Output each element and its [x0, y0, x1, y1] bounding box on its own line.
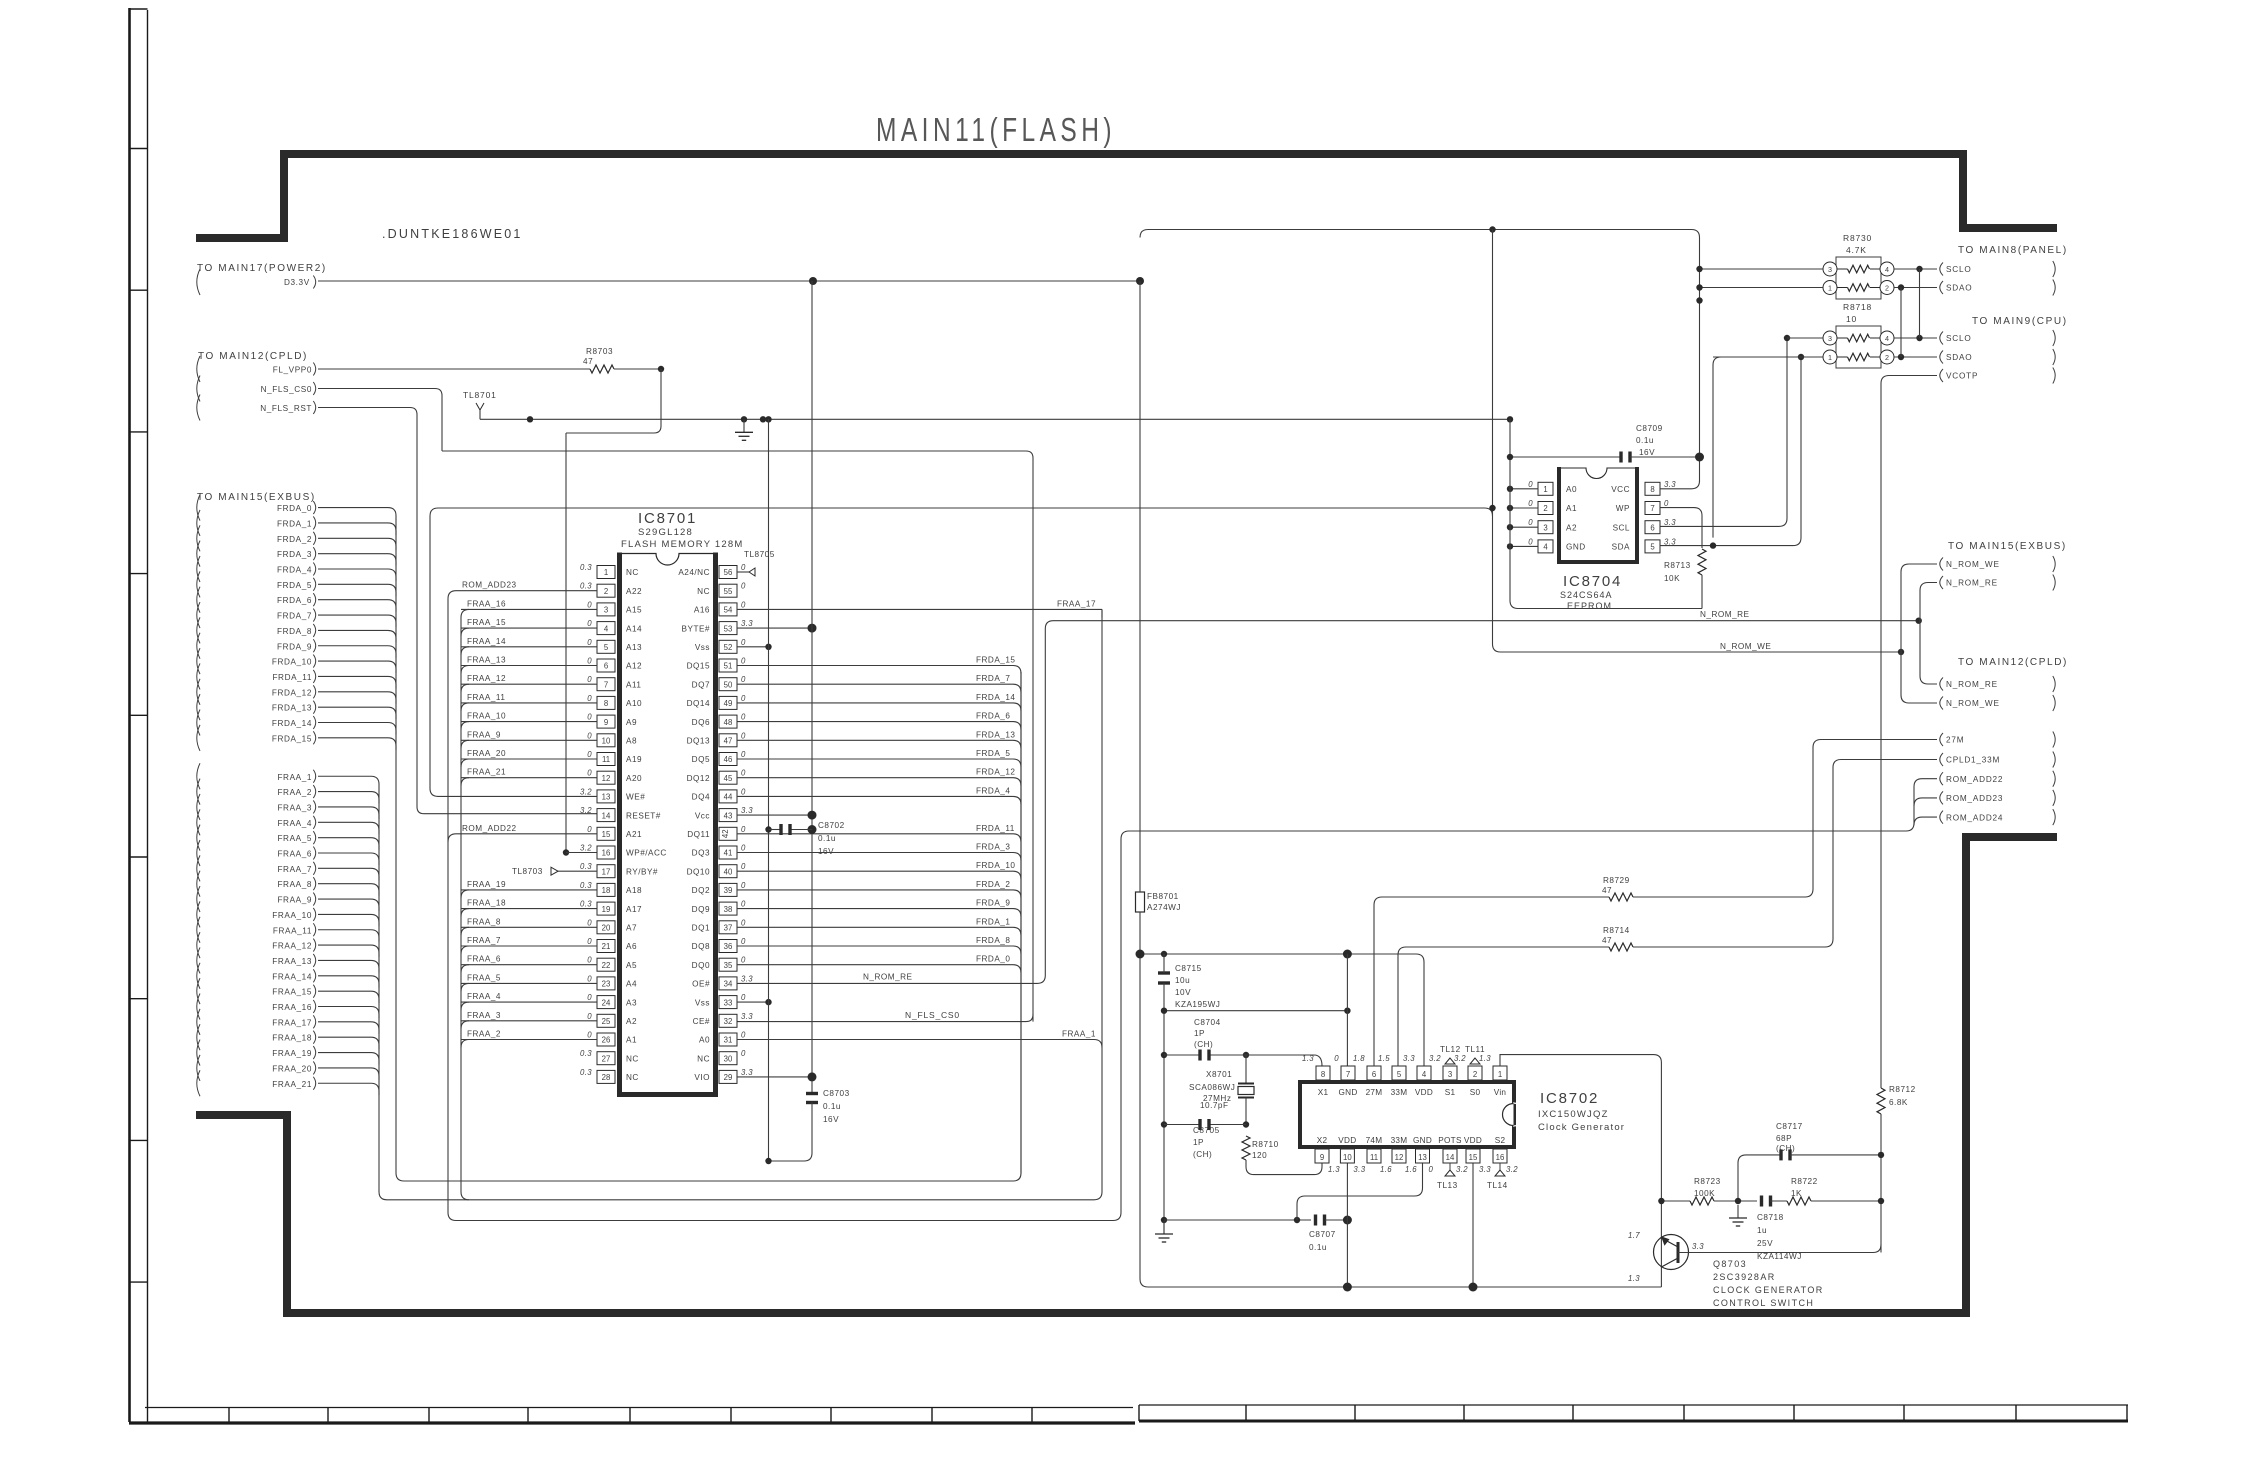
svg-text:A274WJ: A274WJ	[1147, 903, 1181, 912]
node FRAA_19 stub and wire	[197, 1040, 200, 1066]
svg-text:3: 3	[1828, 265, 1832, 274]
svg-text:28: 28	[602, 1073, 611, 1082]
svg-text:CE#: CE#	[693, 1017, 710, 1026]
svg-text:DQ4: DQ4	[692, 793, 710, 802]
svg-text:0: 0	[587, 956, 592, 965]
svg-text:GND: GND	[1566, 543, 1586, 552]
node SDAO stub	[1940, 281, 1943, 294]
svg-text:FRAA_20: FRAA_20	[272, 1064, 312, 1073]
svg-text:SDAO: SDAO	[1946, 353, 1972, 362]
svg-text:48: 48	[724, 718, 733, 727]
svg-text:0: 0	[1334, 1054, 1339, 1063]
svg-text:Vss: Vss	[695, 998, 710, 1007]
wire WE# N_ROM_WE net	[430, 508, 1901, 796]
svg-text:120: 120	[1252, 1151, 1267, 1160]
node ROM_ADD24 stub	[1940, 811, 1943, 824]
svg-text:0: 0	[741, 657, 746, 666]
pin 10 A8	[597, 734, 615, 747]
pin 29 VIO	[719, 1070, 737, 1083]
svg-text:1.6: 1.6	[1380, 1165, 1392, 1174]
svg-text:0: 0	[1528, 480, 1533, 489]
svg-text:3: 3	[1828, 334, 1832, 343]
svg-text:R8730: R8730	[1843, 233, 1872, 243]
svg-text:N_ROM_RE: N_ROM_RE	[1700, 610, 1750, 619]
svg-text:C8718: C8718	[1757, 1213, 1784, 1222]
svg-text:0: 0	[587, 713, 592, 722]
svg-text:14: 14	[602, 811, 611, 820]
svg-text:4.7K: 4.7K	[1846, 245, 1867, 255]
svg-text:25: 25	[602, 1017, 611, 1026]
svg-text:43: 43	[724, 811, 733, 820]
node FRAA_2 stub and wire	[197, 779, 200, 805]
svg-text:C8704: C8704	[1194, 1018, 1221, 1027]
svg-text:A21: A21	[626, 830, 642, 839]
svg-text:3.2: 3.2	[1456, 1165, 1468, 1174]
Vin feed	[1500, 1055, 1661, 1287]
svg-text:3.3: 3.3	[1692, 1242, 1704, 1251]
svg-text:N_FLS_RST: N_FLS_RST	[260, 404, 312, 413]
svg-text:TO MAIN8(PANEL): TO MAIN8(PANEL)	[1958, 245, 2068, 256]
pin 52 Vss	[719, 640, 737, 653]
svg-text:FRAA_10: FRAA_10	[467, 712, 506, 721]
svg-text:R8729: R8729	[1603, 876, 1630, 885]
svg-text:A8: A8	[626, 737, 637, 746]
svg-text:0: 0	[741, 731, 746, 740]
svg-text:10: 10	[602, 737, 611, 746]
node FRDA_3 stub and wire	[197, 541, 200, 567]
svg-text:51: 51	[724, 662, 733, 671]
capacitor C8718 1u 25V	[1760, 1196, 1763, 1207]
capacitor C8703 0.1u 16V	[806, 1092, 818, 1095]
svg-text:FRAA_12: FRAA_12	[272, 942, 312, 951]
IC8702 pin 7 GND	[1341, 1066, 1355, 1080]
svg-text:0.3: 0.3	[580, 881, 592, 890]
svg-text:DQ7: DQ7	[692, 680, 710, 689]
svg-text:2: 2	[1885, 283, 1889, 292]
svg-text:FRDA_10: FRDA_10	[976, 861, 1015, 870]
svg-text:FRDA_15: FRDA_15	[976, 656, 1015, 665]
svg-text:FRAA_4: FRAA_4	[467, 992, 501, 1001]
svg-text:S29GL128: S29GL128	[638, 527, 693, 538]
svg-text:BYTE#: BYTE#	[682, 624, 710, 633]
svg-text:0.3: 0.3	[580, 862, 592, 871]
svg-text:45: 45	[724, 774, 733, 783]
wire BYTE# to 3.3V rail	[737, 627, 812, 629]
svg-text:3.3: 3.3	[1664, 480, 1676, 489]
svg-text:0: 0	[741, 993, 746, 1002]
svg-text:FRAA_13: FRAA_13	[467, 656, 506, 665]
pin 51 DQ15	[719, 659, 737, 672]
pin 37 DQ1	[719, 921, 737, 934]
svg-text:POTS: POTS	[1438, 1136, 1462, 1145]
svg-text:0: 0	[587, 657, 592, 666]
27M vertical to pin6	[1374, 897, 1609, 1066]
IC8702 clock generator body	[1298, 1080, 1516, 1084]
svg-text:16V: 16V	[1639, 448, 1655, 457]
svg-text:TO MAIN12(CPLD): TO MAIN12(CPLD)	[1958, 657, 2068, 668]
svg-text:FB8701: FB8701	[1147, 892, 1179, 901]
svg-text:0.1u: 0.1u	[818, 834, 836, 843]
svg-text:0: 0	[1528, 499, 1533, 508]
svg-text:DQ6: DQ6	[692, 718, 710, 727]
svg-text:13: 13	[602, 793, 611, 802]
svg-text:Vss: Vss	[695, 643, 710, 652]
svg-text:0.1u: 0.1u	[823, 1102, 841, 1111]
pin 43 Vcc	[719, 809, 737, 822]
node FRAA_1 stub and wire	[197, 763, 200, 789]
svg-text:2: 2	[1543, 504, 1547, 513]
EEPROM left ground bus	[1507, 416, 1513, 422]
svg-text:FRAA_8: FRAA_8	[467, 917, 501, 926]
node 27M stub	[1940, 733, 1943, 746]
svg-text:FL_VPP0: FL_VPP0	[273, 366, 312, 375]
svg-text:A10: A10	[626, 699, 642, 708]
svg-text:N_ROM_WE: N_ROM_WE	[1946, 699, 2000, 708]
pin 30 NC	[719, 1052, 737, 1065]
svg-text:20: 20	[602, 924, 611, 933]
svg-text:8: 8	[1650, 485, 1654, 494]
svg-text:Clock Generator: Clock Generator	[1538, 1122, 1625, 1133]
svg-text:S0: S0	[1470, 1088, 1481, 1097]
N_ROM_WE stub riser	[1901, 564, 1937, 703]
svg-text:0: 0	[587, 769, 592, 778]
svg-text:RY/BY#: RY/BY#	[626, 867, 658, 876]
svg-text:0: 0	[1528, 537, 1533, 546]
svg-text:3: 3	[1448, 1070, 1452, 1079]
pin 5 A13	[597, 640, 615, 653]
svg-text:R8714: R8714	[1603, 926, 1630, 935]
svg-text:A24/NC: A24/NC	[678, 568, 710, 577]
svg-text:FRAA_14: FRAA_14	[272, 972, 312, 981]
3.3V top rail	[1140, 230, 1700, 483]
svg-text:RESET#: RESET#	[626, 811, 661, 820]
svg-text:FRAA_11: FRAA_11	[467, 693, 505, 702]
ground under C8715 branch	[1161, 1217, 1167, 1223]
pin 49 DQ14	[719, 696, 737, 709]
svg-text:N_ROM_WE: N_ROM_WE	[1946, 560, 2000, 569]
IC8704 EEPROM body	[1557, 467, 1561, 564]
3.3V drop vertical	[1139, 281, 1141, 892]
svg-text:SDAO: SDAO	[1946, 284, 1972, 293]
pin 6 A12	[597, 659, 615, 672]
wire SCL pin6	[1660, 338, 1787, 526]
svg-text:FRDA_15: FRDA_15	[272, 734, 312, 743]
svg-text:0: 0	[741, 825, 746, 834]
eeprom pin 6 SCL	[1645, 521, 1660, 534]
svg-text:WP#/ACC: WP#/ACC	[626, 849, 667, 858]
svg-text:N_ROM_RE: N_ROM_RE	[863, 972, 913, 981]
pin 8 A10	[597, 696, 615, 709]
svg-text:A18: A18	[626, 886, 642, 895]
FRDA label bus vertical	[1020, 672, 1022, 1173]
svg-text:CPLD1_33M: CPLD1_33M	[1946, 756, 2000, 765]
capacitor C8707 0.1u	[1314, 1215, 1317, 1226]
wire FL_VPP0 to WP#/ACC pin16	[566, 369, 661, 433]
svg-text:FRDA_9: FRDA_9	[976, 899, 1010, 908]
svg-text:FRDA_10: FRDA_10	[272, 658, 312, 667]
svg-text:3.2: 3.2	[580, 806, 592, 815]
svg-text:55: 55	[724, 587, 733, 596]
svg-text:1u: 1u	[1757, 1226, 1767, 1235]
svg-text:15: 15	[1469, 1153, 1478, 1162]
svg-text:ROM_ADD23: ROM_ADD23	[462, 581, 517, 590]
svg-text:0: 0	[741, 937, 746, 946]
pin 40 DQ10	[719, 865, 737, 878]
svg-text:5: 5	[1397, 1070, 1402, 1079]
svg-text:3.2: 3.2	[1429, 1054, 1441, 1063]
svg-text:13: 13	[1418, 1153, 1427, 1162]
svg-text:12: 12	[602, 774, 611, 783]
svg-text:FRAA_9: FRAA_9	[467, 730, 501, 739]
pin15 VDD drop	[1472, 1163, 1474, 1287]
svg-text:A20: A20	[626, 774, 642, 783]
wire Vcc pin43	[737, 814, 812, 816]
svg-text:0: 0	[741, 1031, 746, 1040]
svg-text:A0: A0	[1566, 485, 1577, 494]
node FRDA_1 stub and wire	[197, 510, 200, 536]
svg-text:A13: A13	[626, 643, 642, 652]
svg-text:0: 0	[1528, 518, 1533, 527]
svg-text:1: 1	[604, 568, 608, 577]
svg-text:FRAA_17: FRAA_17	[272, 1018, 312, 1027]
svg-text:0: 0	[587, 918, 592, 927]
svg-text:0: 0	[741, 862, 746, 871]
svg-text:FRDA_11: FRDA_11	[976, 824, 1015, 833]
svg-text:A11: A11	[626, 680, 641, 689]
node FRAA_6 stub and wire	[197, 840, 200, 866]
svg-text:34: 34	[724, 980, 733, 989]
svg-text:56: 56	[724, 568, 733, 577]
svg-text:SCL: SCL	[1613, 523, 1630, 532]
node FRAA_5 stub and wire	[197, 825, 200, 851]
IC8702 pin 4 VDD	[1417, 1066, 1431, 1080]
IC8702 pin 9 X2	[1315, 1149, 1329, 1163]
svg-text:TL11: TL11	[1465, 1045, 1485, 1054]
svg-text:33M: 33M	[1391, 1088, 1408, 1097]
FRAA label bus vertical	[461, 609, 469, 1199]
svg-text:IC8704: IC8704	[1563, 573, 1622, 590]
svg-text:10: 10	[1846, 314, 1857, 324]
node FRDA_9 stub and wire	[197, 633, 200, 659]
node FRDA_4 stub and wire	[197, 556, 200, 582]
node FRAA_8 stub and wire	[197, 871, 200, 897]
svg-text:DQ2: DQ2	[692, 886, 710, 895]
svg-text:0: 0	[587, 600, 592, 609]
svg-text:FRDA_7: FRDA_7	[277, 612, 312, 621]
svg-text:0: 0	[741, 713, 746, 722]
svg-text:0: 0	[587, 937, 592, 946]
svg-text:ROM_ADD23: ROM_ADD23	[1946, 794, 2003, 803]
svg-text:3: 3	[1543, 523, 1547, 532]
svg-text:27: 27	[602, 1054, 611, 1063]
svg-text:TO MAIN17(POWER2): TO MAIN17(POWER2)	[197, 263, 327, 274]
svg-text:15: 15	[602, 830, 611, 839]
svg-text:50: 50	[724, 680, 733, 689]
svg-text:EEPROM: EEPROM	[1567, 601, 1612, 611]
svg-text:5: 5	[604, 643, 609, 652]
pin 21 A6	[597, 940, 615, 953]
svg-text:A2: A2	[626, 1017, 637, 1026]
pin 3 A15	[597, 603, 615, 616]
svg-text:0: 0	[741, 1049, 746, 1058]
pin 48 DQ6	[719, 715, 737, 728]
svg-text:A12: A12	[626, 662, 642, 671]
svg-text:16V: 16V	[818, 847, 834, 856]
svg-text:0: 0	[587, 675, 592, 684]
svg-text:DQ9: DQ9	[692, 905, 710, 914]
svg-text:9: 9	[1320, 1153, 1324, 1162]
svg-text:SCLO: SCLO	[1946, 265, 1972, 274]
svg-text:FRDA_12: FRDA_12	[976, 768, 1015, 777]
svg-text:0: 0	[741, 638, 746, 647]
svg-text:NC: NC	[626, 1073, 639, 1082]
pin 34 OE#	[719, 977, 737, 990]
IC8702 pin 16 S2	[1493, 1149, 1507, 1163]
svg-text:A2: A2	[1566, 523, 1577, 532]
svg-text:FRDA_14: FRDA_14	[272, 719, 312, 728]
svg-text:16V: 16V	[823, 1115, 839, 1124]
svg-text:0: 0	[741, 787, 746, 796]
3.3V bottom rail	[1140, 1279, 1661, 1287]
svg-text:DQ8: DQ8	[692, 942, 710, 951]
IC8702 pin 8 X1	[1316, 1066, 1330, 1080]
svg-text:C8702: C8702	[818, 821, 845, 830]
svg-text:0: 0	[1664, 499, 1669, 508]
capacitor C8715 10u 10V	[1158, 971, 1170, 974]
svg-text:FRAA_18: FRAA_18	[467, 899, 506, 908]
svg-text:36: 36	[724, 942, 733, 951]
svg-text:GND: GND	[1338, 1088, 1357, 1097]
svg-text:FRAA_14: FRAA_14	[467, 637, 506, 646]
svg-text:33: 33	[724, 998, 733, 1007]
svg-text:4: 4	[1422, 1070, 1427, 1079]
ROM_ADD bus vertical	[448, 591, 1113, 1221]
svg-text:DQ13: DQ13	[687, 737, 710, 746]
svg-text:6: 6	[1650, 523, 1654, 532]
svg-text:0: 0	[587, 1012, 592, 1021]
svg-text:0: 0	[587, 974, 592, 983]
svg-text:0: 0	[741, 769, 746, 778]
svg-text:A5: A5	[626, 961, 637, 970]
pin 26 A1	[597, 1033, 615, 1046]
svg-text:FRAA_18: FRAA_18	[272, 1034, 312, 1043]
ROM_ADD bus rise	[1113, 831, 1906, 1221]
svg-text:47: 47	[1602, 936, 1612, 945]
node FRDA_7 stub and wire	[197, 602, 200, 628]
svg-text:R8710: R8710	[1252, 1140, 1279, 1149]
pin 42 DQ11	[719, 827, 737, 840]
svg-text:1.6: 1.6	[1405, 1165, 1417, 1174]
svg-text:MAIN11(FLASH): MAIN11(FLASH)	[876, 111, 1116, 148]
IC8702 pin 14 POTS	[1443, 1149, 1457, 1163]
svg-text:FRAA_15: FRAA_15	[272, 988, 312, 997]
svg-text:D3.3V: D3.3V	[284, 278, 310, 287]
wire SDA pin5	[1660, 545, 1793, 547]
svg-text:9: 9	[604, 718, 608, 727]
svg-text:40: 40	[724, 867, 733, 876]
svg-text:FRDA_5: FRDA_5	[277, 581, 312, 590]
node FRAA_15 stub and wire	[197, 978, 200, 1004]
svg-text:0: 0	[587, 750, 592, 759]
node FRAA_4 stub and wire	[197, 809, 200, 835]
pin 27 NC	[597, 1052, 615, 1065]
svg-text:FRDA_2: FRDA_2	[277, 535, 312, 544]
svg-text:1: 1	[1543, 485, 1547, 494]
svg-text:FRDA_4: FRDA_4	[277, 566, 312, 575]
svg-text:NC: NC	[697, 1054, 710, 1063]
3.3V clock rail	[1140, 953, 1416, 955]
svg-text:FRDA_13: FRDA_13	[272, 704, 312, 713]
svg-text:TL8703: TL8703	[512, 867, 543, 876]
pin13 GND route	[1297, 1163, 1423, 1220]
node N_FLS_CS0 stub	[197, 376, 200, 402]
svg-text:0: 0	[1429, 1165, 1434, 1174]
svg-text:TO MAIN9(CPU): TO MAIN9(CPU)	[1972, 316, 2068, 327]
transistor Q8703	[1654, 1235, 1689, 1270]
wire FL_VPP0 to R8703	[318, 368, 590, 370]
svg-text:A6: A6	[626, 942, 637, 951]
svg-text:7: 7	[1650, 504, 1654, 513]
svg-text:46: 46	[724, 755, 733, 764]
svg-text:DQ15: DQ15	[687, 662, 710, 671]
svg-text:5: 5	[1650, 543, 1655, 552]
node FRAA_3 stub and wire	[197, 794, 200, 820]
svg-text:ROM_ADD22: ROM_ADD22	[462, 824, 517, 833]
node N_ROM_RE stub	[1940, 576, 1943, 589]
svg-text:FRDA_9: FRDA_9	[277, 642, 312, 651]
svg-text:4: 4	[604, 624, 609, 633]
node N_FLS_RST stub	[197, 395, 200, 421]
svg-text:0: 0	[741, 956, 746, 965]
svg-text:X1: X1	[1318, 1088, 1329, 1097]
svg-text:27M: 27M	[1366, 1088, 1383, 1097]
svg-text:0: 0	[741, 900, 746, 909]
SCLO/SDAO wires to stubs	[1894, 268, 1937, 270]
svg-text:1.8: 1.8	[1353, 1054, 1365, 1063]
svg-text:A7: A7	[626, 924, 637, 933]
svg-text:IXC150WJQZ: IXC150WJQZ	[1538, 1109, 1609, 1120]
pin 56 A24/NC	[719, 566, 737, 579]
pin 32 CE#	[719, 1014, 737, 1027]
svg-text:C8715: C8715	[1175, 964, 1202, 973]
svg-text:FRDA_2: FRDA_2	[976, 880, 1010, 889]
left frame rail	[128, 8, 131, 1422]
svg-text:0: 0	[741, 582, 746, 591]
node FRDA_13 stub and wire	[197, 694, 200, 720]
svg-text:FRAA_6: FRAA_6	[277, 850, 312, 859]
svg-text:FRDA_0: FRDA_0	[277, 504, 312, 513]
svg-text:VCOTP: VCOTP	[1946, 372, 1978, 381]
svg-text:52: 52	[724, 643, 733, 652]
IC8702 pin 10 VDD	[1340, 1149, 1354, 1163]
R8730 feed wires from 3.3V	[1700, 268, 1824, 270]
svg-text:0: 0	[741, 844, 746, 853]
svg-text:R8722: R8722	[1791, 1177, 1818, 1186]
FRDA bus bottom run	[396, 1166, 1013, 1181]
svg-text:0: 0	[587, 694, 592, 703]
svg-text:ROM_ADD22: ROM_ADD22	[1946, 775, 2003, 784]
svg-text:0.3: 0.3	[580, 900, 592, 909]
svg-text:TL13: TL13	[1437, 1181, 1458, 1190]
eeprom pin 2 A1	[1538, 502, 1553, 515]
wire N_FLS_CS0 run to CE# pin32	[442, 451, 1033, 1022]
pin 44 DQ4	[719, 790, 737, 803]
eeprom pin 3 A2	[1538, 521, 1553, 534]
svg-text:3.3: 3.3	[741, 806, 753, 815]
svg-text:74M: 74M	[1366, 1136, 1383, 1145]
FRDA bus rise to DQ labels	[1013, 672, 1021, 1181]
svg-text:FRDA_12: FRDA_12	[272, 688, 312, 697]
